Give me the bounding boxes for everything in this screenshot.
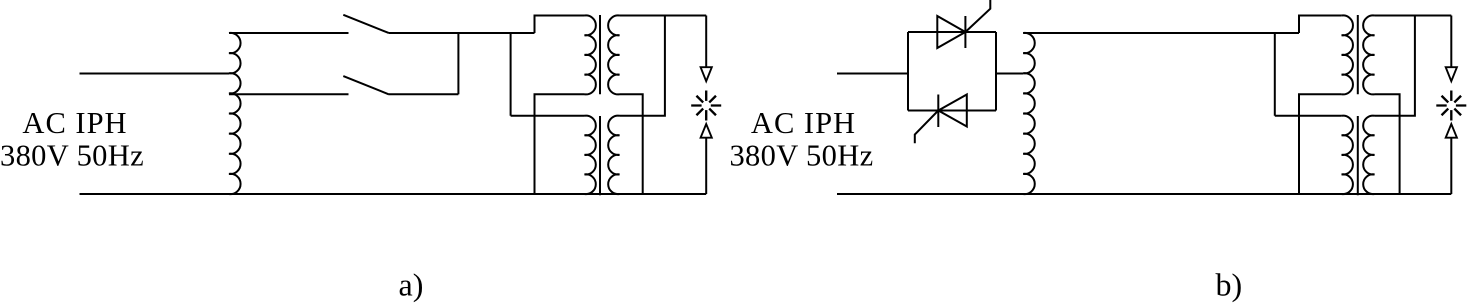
inductor input coil b	[1023, 33, 1035, 194]
transformer secondary winding upper T1	[608, 15, 619, 94]
switch S1 upper blade	[343, 15, 389, 33]
thyristor VS2 triangle	[938, 95, 967, 127]
electrode arrow down T1	[701, 67, 712, 81]
transformer primary winding lower T2	[1342, 116, 1353, 195]
inductor input coil a	[229, 33, 241, 194]
svg-text:b): b)	[1216, 267, 1243, 303]
thyristor VS2 gate	[915, 111, 939, 144]
thyristor VS1 cathode bar	[964, 16, 966, 48]
wire switch outputs join a	[457, 33, 459, 94]
wire gap to rail T2	[1450, 138, 1452, 195]
switch S1 upper fixed wire	[389, 32, 535, 34]
thyristor bottom branch	[908, 110, 996, 112]
wire secondary top horizontal T1	[620, 15, 707, 17]
svg-text:AC IPH: AC IPH	[22, 106, 127, 140]
wire upper primary return T2	[1299, 94, 1342, 194]
wire box to coil b	[996, 73, 1023, 75]
transformer primary winding upper T2	[1342, 15, 1353, 94]
wire input line a	[80, 73, 230, 75]
thyristor VS1 gate	[965, 0, 990, 32]
thyristor box right	[995, 32, 997, 111]
wire coil top to switch a	[229, 32, 349, 34]
transformer secondary winding upper T2	[1363, 15, 1374, 94]
spark star T1	[691, 91, 721, 121]
wire input line b	[837, 73, 908, 75]
wire drop to lower primary T2	[1274, 33, 1276, 116]
wire secondary upper return T1	[620, 94, 643, 194]
svg-text:380V 50Hz: 380V 50Hz	[729, 139, 873, 173]
transformer primary winding lower T1	[585, 116, 596, 195]
wire coil tap to switch a	[229, 93, 349, 95]
switch S1 lower blade	[343, 76, 389, 94]
wire secondary lower feed T1	[620, 16, 665, 116]
wire lower primary feed T1	[511, 115, 585, 117]
wire coil top to transformer b	[1023, 32, 1299, 34]
wire upper primary corner T1	[535, 16, 585, 34]
thyristor VS2 cathode bar	[937, 95, 939, 128]
wire upper primary corner T2	[1299, 16, 1342, 34]
thyristor VS1 triangle	[937, 16, 965, 48]
transformer secondary winding lower T2	[1363, 116, 1374, 195]
wire secondary top horizontal T2	[1375, 15, 1452, 17]
wire bottom rail b	[837, 193, 1451, 195]
spark star T2	[1436, 91, 1466, 121]
switch S1 lower fixed wire	[389, 93, 458, 95]
electrode arrow up T1	[701, 124, 712, 138]
transformer core T2	[1357, 15, 1359, 195]
wire gap to rail T1	[705, 138, 707, 195]
transformer core T1	[599, 15, 601, 195]
svg-text:380V 50Hz: 380V 50Hz	[0, 139, 144, 173]
svg-text:a): a)	[399, 267, 424, 303]
thyristor top branch	[908, 31, 996, 33]
transformer secondary winding lower T1	[608, 116, 619, 195]
wire upper primary return T1	[535, 94, 585, 194]
thyristor box left	[907, 32, 909, 111]
wire secondary top to gap T1	[705, 16, 707, 68]
wire bottom rail a	[80, 193, 707, 195]
wire lower primary feed T2	[1275, 115, 1342, 117]
wire drop to lower primary T1	[510, 33, 512, 116]
electrode arrow up T2	[1446, 124, 1457, 138]
svg-text:AC IPH: AC IPH	[751, 106, 856, 140]
electrode arrow down T2	[1446, 67, 1457, 81]
transformer primary winding upper T1	[585, 15, 596, 94]
wire secondary lower feed T2	[1375, 16, 1415, 116]
wire secondary top to gap T2	[1450, 16, 1452, 68]
wire secondary upper return T2	[1375, 94, 1400, 194]
